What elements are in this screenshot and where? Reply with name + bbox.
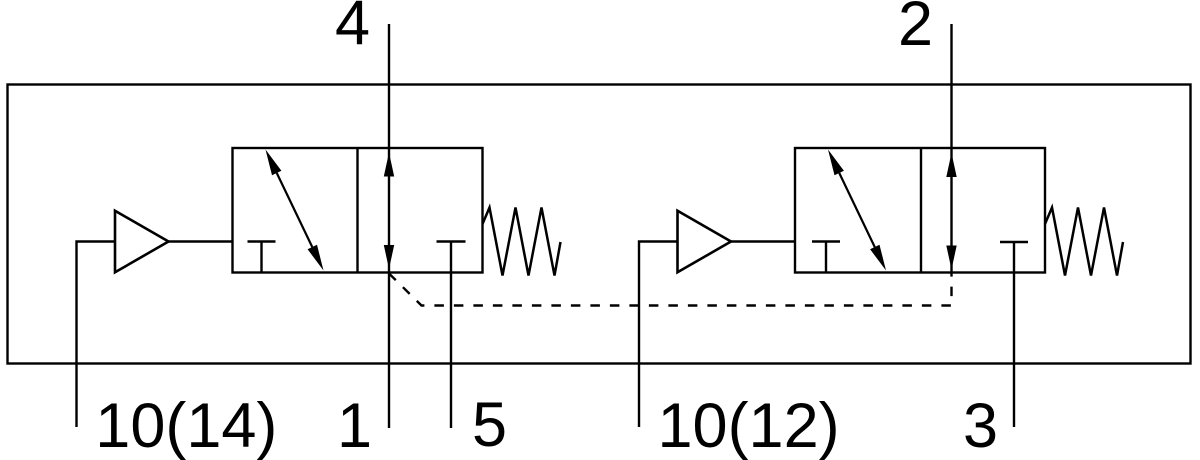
valve 1 blocked port 5 T bbox=[437, 242, 466, 429]
wire amplifier to valve 1 bbox=[169, 240, 233, 242]
valve 1 divider bbox=[356, 148, 358, 273]
svg-text:3: 3 bbox=[963, 391, 998, 460]
wire amplifier to valve 2 bbox=[731, 240, 795, 242]
svg-text:10(12): 10(12) bbox=[658, 391, 840, 460]
valve 1 return spring bbox=[483, 208, 561, 276]
enclosure box bbox=[8, 85, 1191, 364]
svg-text:1: 1 bbox=[337, 391, 372, 460]
valve 2 blocked pilot port T bbox=[812, 242, 840, 273]
dashed pilot signal line bbox=[389, 274, 952, 306]
valve 1 body bbox=[233, 148, 483, 273]
wire pilot 10(14) bbox=[77, 242, 115, 428]
pilot amplifier triangle (valve 2) bbox=[678, 211, 732, 272]
svg-text:5: 5 bbox=[472, 390, 507, 460]
valve 1 blocked pilot port T bbox=[248, 242, 276, 273]
wire port 2 passage bbox=[946, 24, 956, 273]
wire port 4 / port 1 passage bbox=[384, 24, 394, 428]
valve 2 crossover arrow bbox=[828, 150, 886, 271]
wire pilot 10(12) bbox=[639, 242, 677, 428]
svg-text:10(14): 10(14) bbox=[95, 391, 277, 460]
valve 2 blocked port 3 T bbox=[1000, 242, 1028, 427]
valve 2 divider bbox=[920, 148, 922, 273]
valve 2 return spring bbox=[1045, 208, 1123, 276]
pilot amplifier triangle (valve 1) bbox=[115, 211, 169, 272]
svg-text:2: 2 bbox=[898, 0, 933, 59]
svg-text:4: 4 bbox=[335, 0, 370, 59]
valve 1 crossover arrow bbox=[266, 150, 324, 271]
valve 2 body bbox=[795, 148, 1045, 273]
